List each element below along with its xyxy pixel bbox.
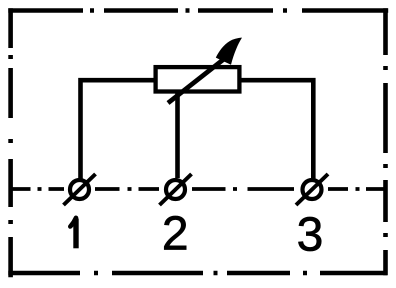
svg-text:3: 3	[297, 209, 324, 262]
svg-text:2: 2	[162, 208, 189, 261]
